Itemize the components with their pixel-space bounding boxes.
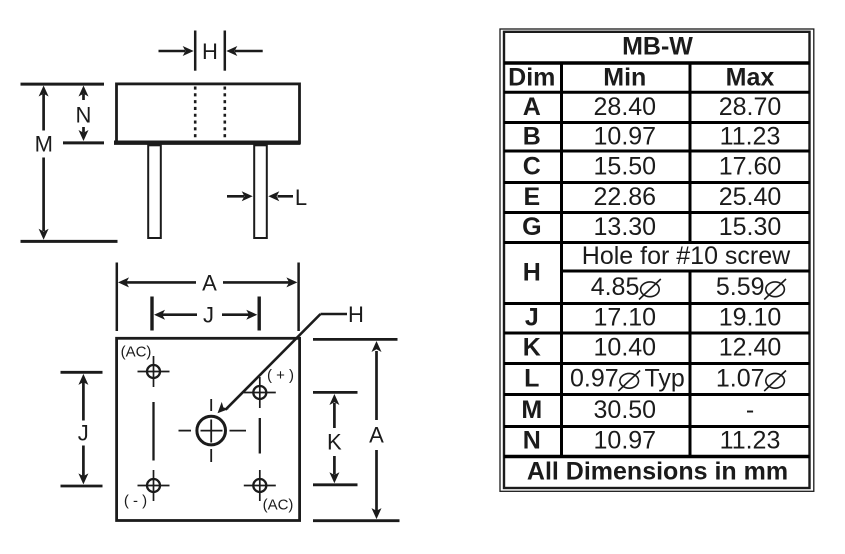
- table inner border: [504, 32, 810, 488]
- dimension A (right) ticks: [313, 338, 398, 341]
- svg-text:N: N: [76, 103, 92, 128]
- svg-text:MB-W: MB-W: [622, 33, 693, 61]
- centerline left column: [152, 402, 154, 461]
- svg-text:Dim: Dim: [508, 63, 555, 91]
- lead pin right (side view): [254, 145, 267, 238]
- svg-text:L: L: [295, 185, 307, 210]
- dimension M arrow line: [42, 94, 45, 231]
- svg-text:1.07: 1.07: [716, 364, 765, 392]
- dimension M tick top: [21, 83, 105, 86]
- table vertical rules: [562, 63, 691, 457]
- svg-text:L: L: [524, 364, 539, 392]
- svg-text:28.70: 28.70: [719, 93, 782, 121]
- svg-text:E: E: [523, 183, 540, 211]
- dimension J (left) arrow line: [82, 382, 85, 476]
- svg-text:11.23: 11.23: [720, 427, 781, 455]
- svg-text:11.23: 11.23: [720, 123, 781, 151]
- svg-text:H: H: [523, 259, 541, 287]
- svg-text:N: N: [523, 427, 541, 455]
- dimension A (top) arrow line: [126, 281, 290, 284]
- svg-text:Typ: Typ: [645, 364, 685, 392]
- svg-text:4.85: 4.85: [591, 273, 640, 301]
- svg-text:( - ): ( - ): [124, 493, 147, 510]
- dimension H arrows: [159, 50, 263, 53]
- svg-text:J: J: [78, 421, 89, 446]
- svg-text:(AC): (AC): [263, 496, 294, 513]
- centerline right column: [259, 418, 261, 454]
- svg-text:19.10: 19.10: [719, 303, 782, 331]
- svg-text:10.40: 10.40: [594, 334, 657, 362]
- svg-text:Hole for #10 screw: Hole for #10 screw: [582, 242, 791, 270]
- dimension L arrows: [227, 195, 293, 198]
- dimension J (top) extension lines: [152, 297, 259, 331]
- dimension K arrow line: [333, 403, 336, 475]
- svg-text:17.10: 17.10: [594, 303, 657, 331]
- svg-text:28.40: 28.40: [594, 93, 657, 121]
- dimension A (top) extension lines: [117, 263, 299, 332]
- dimension J (top) arrow line: [162, 313, 249, 316]
- svg-text:B: B: [523, 123, 541, 151]
- svg-text:0.97: 0.97: [570, 364, 619, 392]
- svg-text:A: A: [202, 271, 217, 296]
- svg-text:25.40: 25.40: [719, 183, 782, 211]
- dimension N tick bottom: [63, 141, 104, 144]
- svg-text:K: K: [523, 334, 541, 362]
- svg-text:All Dimensions in mm: All Dimensions in mm: [527, 458, 788, 486]
- terminal top-left (AC): [138, 356, 170, 387]
- hole centerlines: [179, 399, 247, 462]
- svg-text:10.97: 10.97: [594, 427, 657, 455]
- svg-text:M: M: [35, 132, 53, 157]
- svg-text:17.60: 17.60: [719, 153, 782, 181]
- package body outline (side view): [114, 84, 301, 143]
- svg-text:10.97: 10.97: [594, 123, 657, 151]
- dimension N arrow line: [82, 94, 85, 133]
- dimension A (right) arrow line: [375, 351, 378, 511]
- svg-text:-: -: [746, 396, 754, 424]
- svg-text:H: H: [202, 39, 218, 64]
- svg-text:( + ): ( + ): [267, 367, 294, 384]
- svg-text:15.30: 15.30: [719, 213, 782, 241]
- svg-text:15.50: 15.50: [594, 153, 657, 181]
- svg-text:M: M: [521, 396, 542, 424]
- svg-text:A: A: [523, 93, 541, 121]
- package outline (bottom view): [117, 338, 300, 520]
- leader line to hole, label H: [321, 313, 348, 316]
- svg-text:30.50: 30.50: [594, 396, 657, 424]
- svg-text:Max: Max: [726, 63, 775, 91]
- table outer border: [500, 29, 814, 491]
- center mounting hole: [197, 416, 226, 445]
- svg-text:13.30: 13.30: [594, 213, 657, 241]
- terminal bottom-left (-): [138, 470, 170, 501]
- dimension H (top) extension lines: [195, 31, 225, 71]
- svg-text:C: C: [523, 153, 541, 181]
- dimension K ticks: [313, 391, 358, 394]
- mounting hole hidden lines (dashed): [195, 87, 225, 141]
- svg-text:G: G: [522, 213, 541, 241]
- svg-text:(AC): (AC): [121, 344, 152, 361]
- terminal bottom-right (AC): [244, 470, 276, 501]
- svg-text:A: A: [369, 423, 384, 448]
- table horizontal rules: [504, 63, 810, 457]
- dimension M tick bottom: [21, 240, 118, 243]
- lead pin left (side view): [148, 145, 161, 238]
- svg-text:12.40: 12.40: [719, 334, 782, 362]
- svg-text:J: J: [203, 303, 214, 328]
- svg-text:K: K: [327, 430, 342, 455]
- svg-text:22.86: 22.86: [594, 183, 657, 211]
- svg-text:Min: Min: [603, 63, 646, 91]
- svg-text:H: H: [348, 302, 364, 327]
- terminal top-right (+): [244, 377, 276, 408]
- svg-text:J: J: [525, 303, 539, 331]
- svg-text:5.59: 5.59: [716, 273, 765, 301]
- dimension J (left) ticks: [61, 371, 103, 374]
